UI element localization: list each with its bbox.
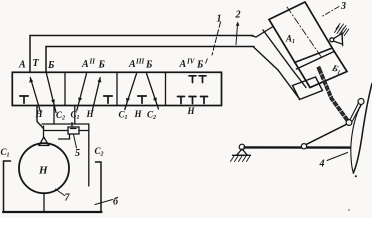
tank 6 right wall: [96, 162, 102, 212]
labels: ports below valve block: [35, 106, 196, 122]
svg-text:А: А: [179, 59, 187, 70]
wire pipe2 diagonal to gland bottom port: [253, 47, 299, 99]
labels: valve section I ports: [18, 58, 204, 72]
wire pipe1 diagonal branch to cylinder head port: [251, 27, 273, 38]
pump suction triangle: [39, 137, 49, 146]
wire pipe1 horizontal run: [30, 36, 253, 73]
svg-text:Б: Б: [98, 60, 106, 71]
svg-text:3: 3: [340, 1, 346, 12]
valve section divider 2: [116, 72, 118, 105]
svg-text:IV: IV: [186, 58, 196, 66]
svg-text:5: 5: [75, 148, 80, 159]
svg-text:Н: Н: [35, 109, 44, 119]
pin joint rod end: [346, 120, 352, 126]
lever arm 4-bar: [245, 146, 351, 149]
pump N circle: [19, 143, 69, 193]
blade 4 outer arc: [353, 84, 372, 174]
valve 5 box: [44, 123, 89, 140]
section I arrow H to T: [29, 78, 40, 113]
svg-text:б: б: [113, 197, 119, 208]
section IV closed port symbol bottom 2: [189, 97, 196, 104]
leader dash-dot for label 3: [321, 7, 339, 18]
tank 6 left wall: [4, 161, 11, 212]
svg-text:Б: Б: [47, 60, 55, 71]
blade 4 inner arc: [351, 105, 362, 173]
svg-text:Н: Н: [134, 109, 143, 119]
small tick after section IV B label: [206, 59, 208, 64]
pin joint blade bracket: [358, 99, 364, 105]
svg-text:2: 2: [235, 10, 241, 21]
svg-text:Б: Б: [196, 60, 204, 71]
wire manifold to pump suction: [43, 126, 45, 138]
svg-text:С2: С2: [95, 146, 104, 158]
section IV closed port symbol bottom 1: [178, 97, 185, 104]
valve section divider 1: [64, 72, 66, 105]
svg-text:С2: С2: [56, 110, 65, 122]
link rod-pin to lever-pin: [306, 124, 348, 145]
section IV closed port symbol top right: [199, 76, 206, 83]
section III arrow A to C1: [125, 74, 137, 110]
svg-text:Н: Н: [38, 165, 48, 177]
leader for label 5: [74, 135, 77, 149]
section III arrow B to C2: [147, 74, 159, 110]
section IV closed port symbol bottom 3: [201, 97, 208, 104]
piston rod hatched: [317, 66, 350, 123]
valve section divider 3: [165, 72, 167, 105]
leader dashed line for label 1: [212, 22, 221, 55]
valve block outer body: [12, 72, 221, 105]
wire port C1 drop: [74, 106, 76, 125]
svg-text:А: А: [18, 60, 26, 71]
svg-text:1: 1: [217, 14, 222, 25]
tank 6 bottom wall: [3, 211, 102, 213]
link rod-pin to blade-pin double line: [350, 102, 361, 121]
section I tank symbol T: [20, 96, 28, 103]
cylinder gland block: [293, 77, 323, 100]
wire pipe1 run alongside barrel to gland top port: [263, 30, 306, 88]
svg-text:А1: А1: [285, 34, 295, 46]
wire C2 return drop into tank: [88, 124, 90, 186]
faint speck below blade: [348, 209, 349, 210]
section I arrow B to C2: [46, 73, 56, 113]
cylinder axis dash-dot line: [287, 7, 322, 58]
svg-text:7: 7: [65, 193, 71, 204]
section II arrow H to B: [92, 78, 101, 113]
cylinder 3 body outline: [269, 2, 347, 88]
section IV closed port symbol top left: [189, 76, 196, 83]
leader arrow for label 2: [236, 22, 240, 45]
wire pump outlet to tank bottom: [43, 195, 45, 213]
trunnion support on cylinder: [330, 24, 349, 47]
wire port H drop to suction manifold: [37, 106, 44, 129]
section II arrow A to C1: [77, 74, 87, 111]
wire return manifold horizontal: [42, 123, 89, 125]
wire port C2 drop: [53, 106, 55, 125]
svg-text:С1: С1: [1, 147, 10, 159]
svg-text:Н: Н: [86, 109, 95, 119]
svg-text:С2: С2: [147, 110, 156, 122]
svg-text:А: А: [81, 59, 89, 70]
cylinder piston band: [295, 49, 335, 70]
svg-text:Т: Т: [33, 58, 40, 69]
svg-text:С1: С1: [71, 110, 80, 122]
pin joint on lever: [301, 144, 306, 149]
leader for label 6: [95, 200, 113, 205]
svg-text:Н: Н: [187, 106, 196, 116]
svg-text:С1: С1: [119, 110, 128, 122]
section III tank symbol T: [138, 96, 146, 103]
svg-text:III: III: [135, 58, 144, 66]
wire pipe2 horizontal run: [46, 47, 254, 73]
lever fixed pivot support: [231, 144, 251, 161]
blade bottom tip dot: [355, 175, 357, 177]
section II tank symbol T: [104, 96, 112, 103]
svg-text:4: 4: [319, 159, 325, 170]
leader for label 4: [327, 153, 348, 161]
svg-text:А: А: [128, 59, 136, 70]
svg-text:II: II: [89, 58, 96, 66]
leader for label 7: [56, 189, 65, 196]
svg-text:Б: Б: [145, 60, 153, 71]
